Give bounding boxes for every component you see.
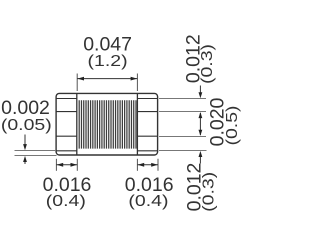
right middle rotated text 0.020 (0.5)	[207, 97, 241, 146]
bottom left dimension 0.016	[56, 163, 77, 167]
left extension lines	[15, 151, 57, 156]
svg-text:(0.5): (0.5)	[223, 105, 241, 145]
right extension lines	[159, 99, 207, 151]
bottom right text 0.016 (0.4)	[125, 174, 174, 210]
svg-text:(0.4): (0.4)	[46, 192, 86, 210]
right 0.020 dimension arrows	[199, 112, 203, 136]
bottom right dimension 0.016	[137, 163, 158, 167]
svg-text:(0.3): (0.3)	[198, 44, 216, 84]
right bottom 0.012 arrow	[199, 151, 203, 164]
right terminal band lines	[137, 99, 157, 151]
svg-text:(0.05): (0.05)	[1, 116, 52, 134]
right top 0.012 arrow	[199, 86, 203, 99]
left terminal band lines	[56, 99, 77, 151]
chip inductor body outline	[56, 93, 158, 155]
top dimension extension lines	[77, 74, 137, 92]
left dimension text 0.002 (0.05)	[1, 97, 52, 134]
right bottom rotated text 0.012 (0.3)	[183, 163, 217, 212]
bottom left text 0.016 (0.4)	[43, 174, 92, 210]
right top rotated text 0.012 (0.3)	[182, 34, 215, 84]
coil winding hatch	[79, 100, 136, 148]
svg-text:(0.3): (0.3)	[199, 172, 217, 212]
svg-text:(1.2): (1.2)	[88, 52, 128, 70]
svg-text:(0.4): (0.4)	[128, 192, 168, 210]
right terminal divider	[136, 94, 138, 155]
left 0.002 arrows	[23, 135, 27, 165]
top dimension line 0.047	[77, 77, 137, 81]
left terminal divider	[76, 94, 78, 155]
top dimension text 0.047 (1.2)	[83, 33, 132, 69]
bottom extension lines	[56, 159, 158, 171]
